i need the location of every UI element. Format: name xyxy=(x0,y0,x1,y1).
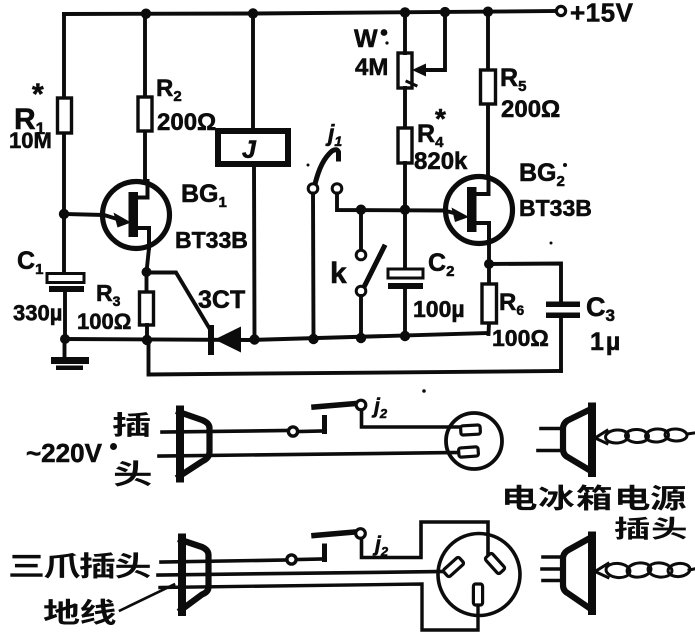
switch J2 row2 lever xyxy=(314,532,355,536)
plug refrigerator row1 body xyxy=(588,407,596,474)
thyristor 3CT cathode bar xyxy=(208,325,214,355)
wire node to C3 top xyxy=(489,264,561,303)
wire C2 bottom xyxy=(403,289,407,336)
wire BG1 emitter xyxy=(64,214,117,219)
wire R4 to emitter rail xyxy=(403,163,407,210)
capacitor C3 top plate xyxy=(546,302,580,308)
capacitor C2 minus plate xyxy=(388,283,423,289)
resistor R5 xyxy=(481,70,496,104)
transistor BG2 circle xyxy=(446,177,513,244)
wire W to R4 xyxy=(403,12,407,128)
socket row2 NW slot xyxy=(443,557,465,578)
svg-text:100Ω: 100Ω xyxy=(77,309,131,334)
transistor BG1 circle xyxy=(103,182,170,249)
node R1 top xyxy=(141,9,151,19)
resistor R4 xyxy=(398,128,412,163)
node relay bottom xyxy=(249,334,259,344)
switch J1 lever xyxy=(315,150,339,184)
node R3 bottom xyxy=(142,335,152,345)
resistor R3 xyxy=(140,292,154,325)
label cha (top plug) xyxy=(113,412,150,437)
wire BG1 B1 to node xyxy=(147,248,150,272)
wire row1 top xyxy=(162,431,288,433)
node k bottom xyxy=(356,333,366,343)
switch J2 row2 pivot xyxy=(356,529,366,539)
svg-text:*: * xyxy=(435,103,446,134)
ground symbol xyxy=(63,339,67,357)
plug 220V row1 body xyxy=(176,410,184,479)
resistor R2 xyxy=(138,97,152,131)
wire R6 branch xyxy=(487,264,491,334)
transistor BG1 B1 lead xyxy=(135,228,149,248)
wire BG2 B1 to node xyxy=(487,244,491,264)
potentiometer W body xyxy=(398,53,412,88)
transistor BG2 B2 lead xyxy=(474,177,489,194)
svg-text:1µ: 1µ xyxy=(590,328,622,356)
wire J2 row1 to socket xyxy=(362,410,461,427)
plug 3-prong row2 body xyxy=(178,538,186,613)
wire J1 left branch xyxy=(311,194,315,340)
connector circle row2 xyxy=(287,555,296,564)
wire C3 bottom xyxy=(559,318,563,371)
node C2 bottom xyxy=(400,331,410,341)
label chatou row1 right xyxy=(615,517,649,540)
plug row2 right prongs xyxy=(543,555,563,559)
node J1 left bottom xyxy=(308,334,318,344)
switch J2 row1 pivot xyxy=(356,400,366,410)
capacitor C1 plus plate xyxy=(47,274,84,283)
wire relay J bottom xyxy=(252,164,256,340)
wire row2 top xyxy=(161,560,287,562)
resistor R3 bottom wire xyxy=(145,325,149,340)
switch J2 row2 fixed contact xyxy=(297,557,323,561)
svg-text:200Ω: 200Ω xyxy=(501,96,560,123)
resistor R3 top wire xyxy=(145,272,149,292)
capacitor C1 minus plate xyxy=(49,286,84,292)
wire row2 bottom to socket bottom path xyxy=(160,584,478,630)
transistor BG2 emitter arrow xyxy=(452,208,470,223)
wire row1 bottom xyxy=(159,453,460,457)
label dianbingxiang dianyuan xyxy=(505,485,536,510)
switch k top contact xyxy=(356,250,366,260)
transistor BG2 base bar xyxy=(467,187,477,232)
wire C1 to ground rail xyxy=(63,292,67,339)
svg-text:100µ: 100µ xyxy=(413,296,465,322)
node R5 top xyxy=(483,7,493,17)
svg-text:820k: 820k xyxy=(414,148,468,175)
switch J2 row1 fixed contact xyxy=(298,429,322,433)
label tou (top plug) xyxy=(115,460,151,486)
resistor R1 xyxy=(58,98,72,133)
plug row2 right body xyxy=(588,536,596,612)
wire R1 branch xyxy=(62,14,66,274)
relay J box xyxy=(218,131,288,164)
transistor BG1 emitter arrow xyxy=(114,213,132,228)
wire ground rail xyxy=(64,333,488,340)
node relay top xyxy=(248,8,258,18)
terminal +15V xyxy=(556,6,565,15)
node wiper top xyxy=(440,7,450,17)
svg-text:W: W xyxy=(354,25,378,53)
svg-text:+15V: +15V xyxy=(570,0,634,28)
wire R2 branch xyxy=(143,14,147,182)
label san zhua cha tou xyxy=(10,555,42,577)
potentiometer W wiper arrow xyxy=(412,64,426,77)
node k top xyxy=(356,205,366,215)
wire bottom return xyxy=(149,341,562,375)
node W top xyxy=(400,7,410,17)
wire J1 to BG2 emitter rail xyxy=(337,194,456,214)
socket row1 top slot xyxy=(461,425,481,435)
node BG2 B1 xyxy=(484,259,494,269)
switch J1 right contact xyxy=(332,184,342,194)
svg-text:100Ω: 100Ω xyxy=(492,325,549,351)
svg-text:330µ: 330µ xyxy=(13,301,62,326)
svg-text:k: k xyxy=(330,257,347,290)
node C2 top xyxy=(400,205,410,215)
svg-text:*: * xyxy=(32,78,44,111)
cord row2 xyxy=(595,564,608,578)
resistor R6 xyxy=(482,284,497,323)
transistor BG2 B1 lead xyxy=(474,223,489,244)
wire R5 branch xyxy=(486,12,490,177)
wire k branch top xyxy=(359,210,363,250)
socket row1 circle xyxy=(446,413,502,469)
node BG1 B1 xyxy=(142,267,152,277)
svg-text:BT33B: BT33B xyxy=(175,227,248,253)
node C1 ground xyxy=(60,334,70,344)
wire relay J top xyxy=(251,14,255,131)
svg-text:BT33B: BT33B xyxy=(519,195,592,221)
wire J2 row2 to socket top path xyxy=(362,522,489,558)
switch J2 row1 lever xyxy=(314,404,356,408)
svg-text:~220V: ~220V xyxy=(26,438,103,468)
wire top +15V rail xyxy=(64,11,560,14)
socket row2 NE slot xyxy=(485,553,506,575)
transistor BG1 base bar xyxy=(129,192,139,237)
wire k branch bottom xyxy=(359,296,363,338)
wire row2 middle xyxy=(158,572,445,576)
socket row2 circle xyxy=(438,534,520,616)
svg-text:4M: 4M xyxy=(355,54,388,81)
arrow 地线 to plug xyxy=(120,585,174,611)
capacitor C2 plus plate xyxy=(388,269,423,278)
thyristor 3CT triangle xyxy=(215,327,242,353)
socket row1 bottom slot xyxy=(458,447,478,458)
node BG1 emitter left xyxy=(59,209,69,219)
svg-text:J: J xyxy=(242,136,257,164)
label di xian xyxy=(44,599,79,625)
switch J1 left contact xyxy=(308,184,318,194)
switch k bottom contact xyxy=(356,286,366,296)
svg-text:200Ω: 200Ω xyxy=(157,109,216,136)
switch k lever xyxy=(365,247,385,286)
connector circle row1 xyxy=(288,427,297,436)
cord row1 xyxy=(595,431,607,444)
wire C2 branch xyxy=(403,210,407,270)
potentiometer W wiper wire xyxy=(424,12,445,70)
thyristor 3CT gate wire xyxy=(147,273,212,332)
transistor BG1 B2 lead xyxy=(136,181,148,198)
plug refrigerator row1 prongs xyxy=(541,427,563,431)
capacitor C3 bottom plate xyxy=(546,313,580,319)
socket row2 bottom slot xyxy=(473,584,482,605)
svg-text:10M: 10M xyxy=(9,128,52,153)
svg-text:3CT: 3CT xyxy=(198,286,245,314)
